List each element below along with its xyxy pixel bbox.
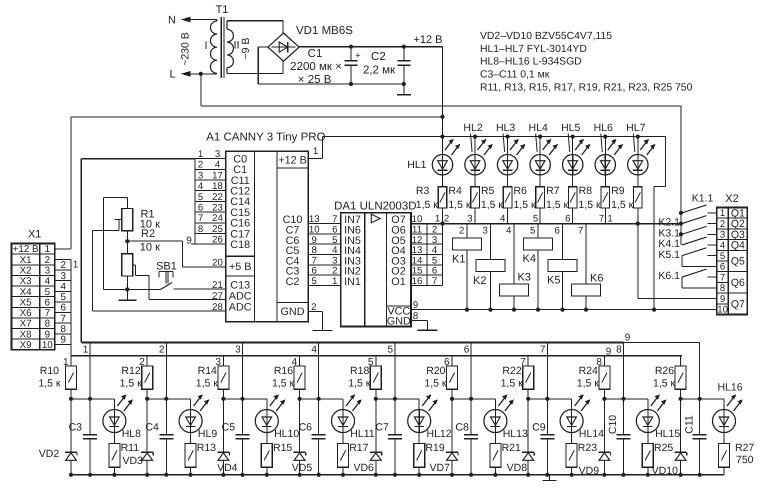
svg-text:6: 6 — [565, 214, 570, 225]
resistor R24 — [603, 356, 605, 366]
svg-text:C7: C7 — [375, 422, 389, 434]
junction net7 column — [636, 222, 640, 226]
wire R8 to bus — [604, 208, 606, 224]
relay K1 coil — [453, 238, 482, 250]
relay contact K3.1 — [682, 226, 707, 234]
resistor R11 — [113, 433, 115, 444]
svg-text:R24: R24 — [579, 365, 598, 377]
svg-text:ADC: ADC — [229, 302, 252, 314]
A1 pin 27 wire — [149, 299, 226, 301]
svg-text:1,5 к: 1,5 к — [579, 199, 602, 211]
resistor R26 — [680, 356, 682, 366]
cell 9 ground junctions — [679, 473, 683, 477]
svg-text:VD7: VD7 — [429, 462, 450, 474]
svg-text:8: 8 — [616, 344, 622, 355]
junction K2 coil common — [488, 308, 492, 312]
junction K1 coil common — [465, 308, 469, 312]
svg-text:17: 17 — [212, 170, 223, 181]
bridge rectifier VD1 — [268, 33, 299, 61]
junction K6 coil common — [584, 308, 588, 312]
svg-text:5: 5 — [720, 251, 725, 262]
DA1 output row wires — [411, 233, 443, 235]
svg-text:10: 10 — [42, 340, 53, 351]
svg-text:18: 18 — [212, 181, 223, 192]
svg-text:4: 4 — [198, 181, 204, 192]
zener diode VD3 — [146, 399, 148, 453]
svg-text:6: 6 — [555, 225, 560, 236]
svg-text:3: 3 — [60, 271, 66, 282]
svg-text:R7: R7 — [546, 185, 560, 197]
svg-text:HL5: HL5 — [561, 122, 580, 134]
svg-text:C3–C11 0,1 мк: C3–C11 0,1 мк — [480, 70, 550, 81]
0V rail — [258, 83, 404, 85]
svg-text:K4: K4 — [523, 253, 536, 265]
zener diode VD8 — [527, 399, 529, 453]
svg-text:R16: R16 — [274, 365, 293, 377]
capacitor C8 — [470, 399, 472, 435]
svg-text:R12: R12 — [121, 365, 140, 377]
svg-text:R6: R6 — [514, 185, 528, 197]
svg-text:1,5 к: 1,5 к — [611, 199, 634, 211]
svg-text:K1.1: K1.1 — [692, 193, 714, 205]
wire midpoint to pin 20 — [127, 240, 182, 242]
junction R2 bottom — [125, 287, 129, 291]
cell 6 node rail — [452, 398, 495, 400]
line A drop net 9 — [699, 343, 701, 399]
svg-text:K3: K3 — [518, 271, 531, 283]
svg-text:VD2–VD10 BZV55C4V7,115: VD2–VD10 BZV55C4V7,115 — [480, 31, 612, 42]
svg-text:C2: C2 — [286, 276, 300, 288]
wire R5 to bus — [507, 208, 509, 224]
wire secondary bottom to bridge — [227, 73, 283, 75]
resistor R6 — [539, 175, 541, 187]
svg-text:VD2: VD2 — [39, 448, 60, 460]
trimmer resistor R1 — [122, 208, 133, 230]
junction HL1 column bus — [440, 222, 444, 226]
cell 5 node rail — [376, 398, 419, 400]
svg-text:X1: X1 — [28, 229, 41, 241]
svg-text:5: 5 — [530, 225, 535, 236]
svg-text:VD5: VD5 — [292, 462, 313, 474]
svg-text:VD1 MB6S: VD1 MB6S — [296, 25, 353, 37]
svg-text:1,5 к: 1,5 к — [577, 378, 600, 390]
wire R9 to bus — [637, 208, 639, 224]
junction +12V common — [652, 308, 656, 312]
svg-text:HL8–HL16 L-934SGD: HL8–HL16 L-934SGD — [480, 57, 582, 68]
svg-text:HL14: HL14 — [579, 428, 604, 440]
svg-text:6: 6 — [720, 262, 725, 273]
svg-text:1,5 к: 1,5 к — [196, 378, 219, 390]
svg-text:8: 8 — [198, 224, 203, 235]
A1 pin 23 wire (C15) — [195, 211, 226, 213]
svg-text:R11, R13, R15, R17, R19, R21,: R11, R13, R15, R17, R19, R21, R23, R25 7… — [480, 82, 693, 93]
resistor R4 — [474, 175, 476, 187]
svg-text:K2: K2 — [473, 275, 486, 287]
A1 pin 2 GND wire — [308, 310, 322, 312]
svg-text:HL3: HL3 — [496, 122, 515, 134]
trimmer resistor R2 — [122, 254, 133, 276]
LED HL13 — [494, 399, 496, 410]
wire X1 pin1 +12V — [55, 248, 71, 250]
svg-text:VD4: VD4 — [217, 462, 238, 474]
svg-text:C4: C4 — [145, 422, 159, 434]
svg-text:C1: C1 — [308, 48, 323, 60]
cell 8 ground junctions — [602, 473, 606, 477]
LED HL7 — [636, 135, 640, 139]
svg-text:X3: X3 — [20, 276, 33, 287]
cell 3 node rail — [223, 398, 266, 400]
wire +12V jog to commons — [664, 137, 666, 187]
svg-text:1,5 к: 1,5 к — [513, 199, 536, 211]
svg-text:HL1: HL1 — [407, 159, 426, 171]
svg-text:24: 24 — [212, 213, 223, 224]
svg-text:6: 6 — [464, 344, 470, 355]
cell 3 ground junctions — [221, 473, 225, 477]
LED HL1 — [440, 135, 444, 139]
wire +12V LED rail — [322, 136, 665, 138]
svg-text:DA1 ULN2003D: DA1 ULN2003D — [334, 201, 416, 213]
svg-text:26: 26 — [212, 235, 223, 246]
LED HL8 — [113, 399, 115, 410]
LED HL4 — [538, 135, 542, 139]
LED HL5 — [571, 135, 575, 139]
LED HL16 — [723, 399, 725, 410]
svg-text:A1 CANNY 3 Tiny PRO: A1 CANNY 3 Tiny PRO — [206, 132, 325, 144]
SB1 contact arm — [161, 283, 173, 290]
svg-text:27: 27 — [212, 291, 223, 302]
svg-text:R18: R18 — [350, 365, 369, 377]
resistor R10 — [70, 356, 72, 366]
svg-text:R15: R15 — [273, 442, 292, 454]
relay contact K1.1 — [682, 205, 707, 213]
svg-text:X7: X7 — [20, 319, 32, 330]
svg-text:5: 5 — [45, 287, 51, 298]
svg-text:1: 1 — [45, 244, 50, 255]
svg-text:7: 7 — [198, 213, 203, 224]
svg-text:1: 1 — [435, 214, 440, 225]
svg-text:R8: R8 — [579, 185, 593, 197]
svg-text:2: 2 — [311, 302, 316, 313]
svg-text:3: 3 — [198, 170, 203, 181]
svg-text:~9 В: ~9 В — [240, 38, 252, 60]
svg-text:Q6: Q6 — [731, 277, 745, 289]
junction C1 top — [349, 45, 353, 49]
ground under R2 — [126, 289, 128, 300]
svg-text:R27: R27 — [735, 442, 754, 454]
relay contact K5.1 — [682, 248, 707, 256]
connector X2 body — [717, 208, 729, 315]
svg-text:K1: K1 — [452, 254, 465, 266]
zener diode VD6 — [375, 399, 377, 453]
svg-text:6: 6 — [60, 303, 66, 314]
resistor R13 — [190, 433, 192, 444]
svg-text:N: N — [168, 14, 176, 26]
A1 pin 25 wire (C17) — [195, 233, 226, 235]
svg-text:2200 мк ×: 2200 мк × — [290, 61, 342, 73]
cell 4 ground junctions — [298, 473, 302, 477]
resistor R12 — [146, 356, 148, 366]
svg-text:C8: C8 — [455, 422, 469, 434]
svg-text:5: 5 — [60, 292, 66, 303]
svg-text:C18: C18 — [230, 239, 250, 251]
relay common +12V line — [411, 309, 717, 311]
svg-text:20: 20 — [212, 258, 223, 269]
svg-text:Q5: Q5 — [731, 256, 745, 268]
resistor R21 — [494, 433, 496, 444]
svg-text:X4: X4 — [20, 287, 33, 298]
svg-text:R3: R3 — [416, 185, 430, 197]
capacitor C2 — [403, 47, 405, 61]
resistor R23 — [571, 433, 573, 444]
svg-text:1: 1 — [607, 214, 612, 225]
svg-text:25: 25 — [212, 224, 223, 235]
svg-text:~230 В: ~230 В — [180, 32, 192, 66]
LED HL10 — [266, 399, 268, 410]
zener diode VD4 — [222, 399, 224, 453]
svg-text:1: 1 — [313, 146, 318, 157]
svg-text:5: 5 — [312, 276, 317, 287]
resistor R9 — [637, 175, 639, 187]
svg-text:3: 3 — [483, 225, 488, 236]
svg-text:1,5 к: 1,5 к — [272, 378, 295, 390]
svg-text:Q7: Q7 — [731, 299, 745, 311]
svg-text:1,5 к: 1,5 к — [448, 199, 471, 211]
contact K6.1 link — [682, 287, 717, 289]
relay K5 coil — [548, 260, 577, 272]
relay contact K4.1 — [682, 237, 707, 245]
capacitor C6 — [318, 399, 320, 435]
LED HL12 — [418, 399, 420, 410]
junction K3 coil common — [512, 308, 516, 312]
wire R4 to bus — [474, 208, 476, 224]
svg-text:2: 2 — [198, 160, 203, 171]
resistor R5 — [507, 175, 509, 187]
cell 6 ground junctions — [450, 473, 454, 477]
svg-text:R4: R4 — [448, 185, 462, 197]
A1 pin 1 wire +12V — [308, 158, 322, 160]
svg-text:9: 9 — [625, 333, 631, 344]
capacitor C9 — [546, 399, 548, 435]
LED HL11 — [342, 399, 344, 410]
svg-text:3: 3 — [215, 149, 220, 160]
svg-text:IN1: IN1 — [344, 276, 361, 288]
svg-text:II: II — [233, 39, 239, 51]
cell 2 ground junctions — [145, 473, 149, 477]
svg-text:R5: R5 — [481, 185, 495, 197]
junction C2 top — [402, 45, 406, 49]
svg-text:+12 В: +12 В — [278, 154, 307, 166]
capacitor C3 — [89, 399, 91, 435]
wire +12V down from supply — [442, 47, 444, 137]
relay K3 coil — [500, 284, 529, 296]
relay K6 coil — [572, 284, 601, 296]
relay K4 coil — [524, 238, 553, 250]
svg-text:3: 3 — [467, 214, 472, 225]
svg-text:1,5 к: 1,5 к — [120, 378, 143, 390]
transformer T1 primary winding I — [210, 20, 217, 74]
svg-text:HL4: HL4 — [529, 122, 548, 134]
svg-text:1,5 к: 1,5 к — [501, 378, 524, 390]
svg-text:1,5 к: 1,5 к — [348, 378, 371, 390]
relay contact K6.1 — [682, 269, 707, 277]
svg-text:R9: R9 — [611, 185, 625, 197]
junction C2 bottom — [402, 82, 406, 86]
svg-text:X5: X5 — [20, 297, 33, 308]
svg-text:HL9: HL9 — [198, 428, 217, 440]
LED HL14 — [571, 399, 573, 410]
resistor R14 — [222, 356, 224, 366]
svg-text:Q4: Q4 — [731, 240, 745, 252]
svg-text:23: 23 — [212, 203, 223, 214]
svg-text:VD3: VD3 — [122, 455, 143, 467]
svg-text:7: 7 — [432, 276, 437, 287]
svg-text:+12 В: +12 В — [413, 34, 442, 46]
DA1 buffer triangle — [371, 214, 380, 222]
svg-text:+12 В: +12 В — [13, 244, 39, 255]
cell 4 node rail — [300, 398, 343, 400]
svg-text:C2: C2 — [371, 51, 386, 63]
junction R1 R2 midpoint — [125, 239, 129, 243]
capacitor C4 — [165, 399, 167, 435]
svg-text:1: 1 — [332, 276, 337, 287]
driver DA1 body — [341, 213, 411, 327]
svg-text:21: 21 — [212, 280, 223, 291]
wire R2 bottom node — [103, 288, 160, 290]
svg-text:9: 9 — [720, 294, 725, 305]
svg-text:X1: X1 — [20, 255, 32, 266]
svg-text:6: 6 — [198, 203, 203, 214]
svg-text:X2: X2 — [20, 266, 32, 277]
svg-text:VD6: VD6 — [353, 462, 374, 474]
wire R1 top — [126, 197, 128, 208]
connector X1 body — [12, 244, 55, 350]
svg-text:HL16: HL16 — [717, 382, 742, 394]
svg-text:1: 1 — [720, 208, 725, 219]
svg-text:1: 1 — [198, 149, 203, 160]
svg-text:2: 2 — [444, 214, 449, 225]
junction on L wire — [199, 72, 203, 76]
svg-text:2: 2 — [159, 344, 165, 355]
svg-text:3: 3 — [45, 266, 51, 277]
A1 pin 20 wire — [183, 266, 226, 268]
svg-text:X2: X2 — [725, 193, 738, 205]
A1 pin 3 wire (C0) — [195, 158, 226, 160]
resistor R8 — [604, 175, 606, 187]
wire R7 to bus — [572, 208, 574, 224]
A1 pin 24 wire (C16) — [195, 222, 226, 224]
relay contact K2.1 — [682, 216, 707, 224]
svg-text:HL8: HL8 — [122, 428, 141, 440]
LED HL3 — [506, 135, 510, 139]
LED HL2 — [473, 135, 477, 139]
ground symbol on rail — [549, 475, 551, 481]
output group bus — [411, 223, 682, 225]
wire R3 to bus — [442, 208, 444, 224]
svg-text:R25: R25 — [654, 442, 673, 454]
transformer T1 core — [220, 17, 222, 78]
svg-text:HL7: HL7 — [626, 122, 645, 134]
cell 1 node rail — [71, 398, 114, 400]
svg-text:HL15: HL15 — [655, 428, 680, 440]
svg-text:6: 6 — [45, 297, 51, 308]
HL1 column to DA1 row table — [442, 224, 444, 286]
transformer T1 secondary winding II — [227, 21, 233, 74]
svg-text:SB1: SB1 — [156, 260, 177, 272]
svg-text:8: 8 — [45, 319, 51, 330]
A1 pin 4 wire (C1) — [195, 168, 226, 170]
A1 pin 28 wire — [92, 310, 226, 312]
svg-text:× 25 В: × 25 В — [298, 74, 332, 86]
resistor R25 — [647, 433, 649, 444]
svg-text:2: 2 — [60, 260, 65, 271]
junction C1 bottom — [349, 82, 353, 86]
svg-text:22: 22 — [212, 192, 223, 203]
line B drop net 9 — [680, 356, 682, 366]
cell 5 ground junctions — [374, 473, 378, 477]
contacts common wire from mains — [680, 106, 682, 245]
contact K5.1 link — [682, 265, 717, 267]
svg-text:4: 4 — [311, 344, 317, 355]
svg-text:R23: R23 — [578, 442, 597, 454]
svg-text:HL1–HL7 FYL-3014YD: HL1–HL7 FYL-3014YD — [480, 44, 587, 55]
svg-text:7: 7 — [720, 272, 725, 283]
svg-text:K5.1: K5.1 — [658, 249, 680, 261]
svg-text:HL12: HL12 — [427, 428, 452, 440]
resistor R3 — [442, 175, 444, 187]
svg-text:8: 8 — [60, 324, 66, 335]
junction K4 coil common — [536, 308, 540, 312]
A1 left pin table — [194, 159, 196, 245]
svg-text:O1: O1 — [391, 276, 405, 288]
LED HL15 — [647, 399, 649, 410]
svg-text:K6: K6 — [590, 272, 603, 284]
capacitor C5 — [242, 399, 244, 435]
ground under A1 — [321, 311, 323, 330]
svg-text:2: 2 — [459, 225, 464, 236]
A1 pin 18 wire (C12) — [195, 190, 226, 192]
resistor R17 — [342, 433, 344, 444]
cell 9 node rail — [681, 398, 724, 400]
zener diode VD10 — [680, 399, 682, 453]
net 9 stub — [191, 243, 195, 245]
svg-text:10: 10 — [717, 305, 728, 316]
ground under C2 — [403, 84, 405, 95]
svg-text:7: 7 — [599, 214, 604, 225]
svg-text:R20: R20 — [426, 365, 445, 377]
relay K2 coil — [476, 260, 505, 272]
svg-text:R11: R11 — [121, 442, 140, 454]
wire R6 to bus — [539, 208, 541, 224]
svg-text:R19: R19 — [425, 442, 444, 454]
svg-text:5: 5 — [198, 192, 203, 203]
zener diode VD2 — [70, 399, 72, 453]
svg-text:T1: T1 — [216, 4, 229, 16]
wire R2 tap to pin 27 — [135, 274, 149, 276]
svg-text:+: + — [355, 51, 361, 62]
svg-text:VD8: VD8 — [507, 462, 528, 474]
resistor R22 — [527, 356, 529, 366]
svg-text:9: 9 — [45, 329, 50, 340]
svg-text:1,5 к: 1,5 к — [424, 378, 447, 390]
DA1 VCC GND cell — [387, 305, 411, 307]
capacitor C11 — [699, 399, 701, 435]
resistor R16 — [299, 356, 301, 366]
cell 2 node rail — [147, 398, 190, 400]
svg-text:3: 3 — [720, 230, 725, 241]
svg-text:HL11: HL11 — [350, 428, 374, 440]
ground under DA1 — [418, 329, 438, 331]
LED HL9 — [190, 399, 192, 410]
